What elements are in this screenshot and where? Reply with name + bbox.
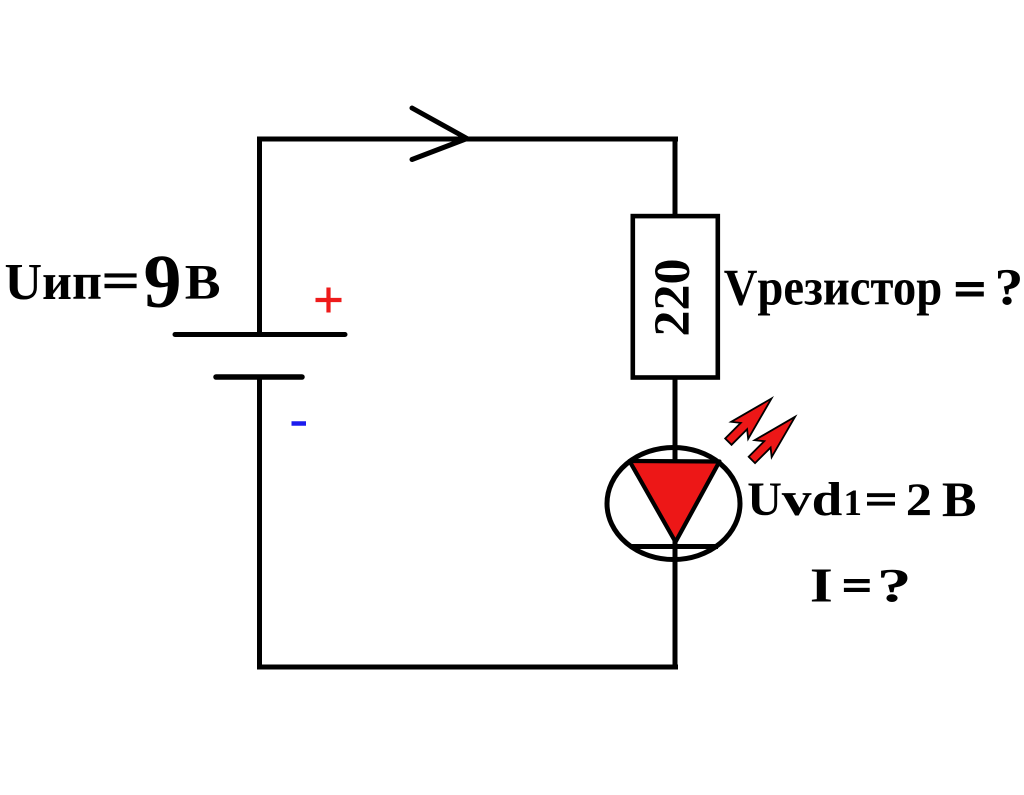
label I = ?	[810, 558, 912, 612]
wire right middle (resistor to LED)	[673, 377, 678, 470]
svg-text:v: v	[782, 473, 813, 526]
svg-text:d: d	[812, 473, 843, 526]
wire left upper (battery + to top)	[257, 137, 262, 335]
LED VD1 triangle (anode)	[630, 461, 720, 542]
svg-text:Vрезистор: Vрезистор	[724, 260, 943, 317]
LED VD1 circle	[607, 448, 740, 560]
current direction arrow	[412, 108, 467, 160]
LED light arrow 2	[743, 408, 803, 468]
battery BT1 positive plate	[175, 332, 345, 337]
svg-text:1: 1	[844, 483, 863, 524]
wire top	[257, 137, 678, 142]
svg-text:220: 220	[644, 259, 700, 337]
wire right upper (top to resistor)	[673, 137, 678, 217]
svg-text:?: ?	[995, 258, 1024, 316]
resistor R1 body	[633, 216, 718, 377]
wire through LED	[673, 460, 678, 670]
label - (negative terminal)	[292, 421, 307, 426]
svg-text:Uип: Uип	[5, 254, 102, 311]
wire left lower (battery - to bottom)	[257, 377, 262, 670]
label + (positive terminal)	[316, 288, 342, 313]
label Vрезистор = ?	[724, 258, 1024, 316]
svg-text:U: U	[747, 473, 782, 526]
battery BT1 negative plate	[216, 374, 302, 380]
svg-text:2: 2	[906, 474, 932, 526]
svg-text:В: В	[185, 255, 221, 310]
LED light arrow 1	[720, 390, 780, 450]
wire bottom	[257, 665, 678, 670]
svg-text:В: В	[942, 472, 977, 527]
svg-text:?: ?	[877, 559, 912, 612]
label Uип = 9 В	[5, 240, 221, 324]
svg-text:I: I	[810, 558, 833, 612]
LED VD1 cathode bar	[630, 544, 718, 549]
label Uvd1 = 2 В	[747, 472, 976, 527]
svg-text:9: 9	[144, 240, 182, 324]
